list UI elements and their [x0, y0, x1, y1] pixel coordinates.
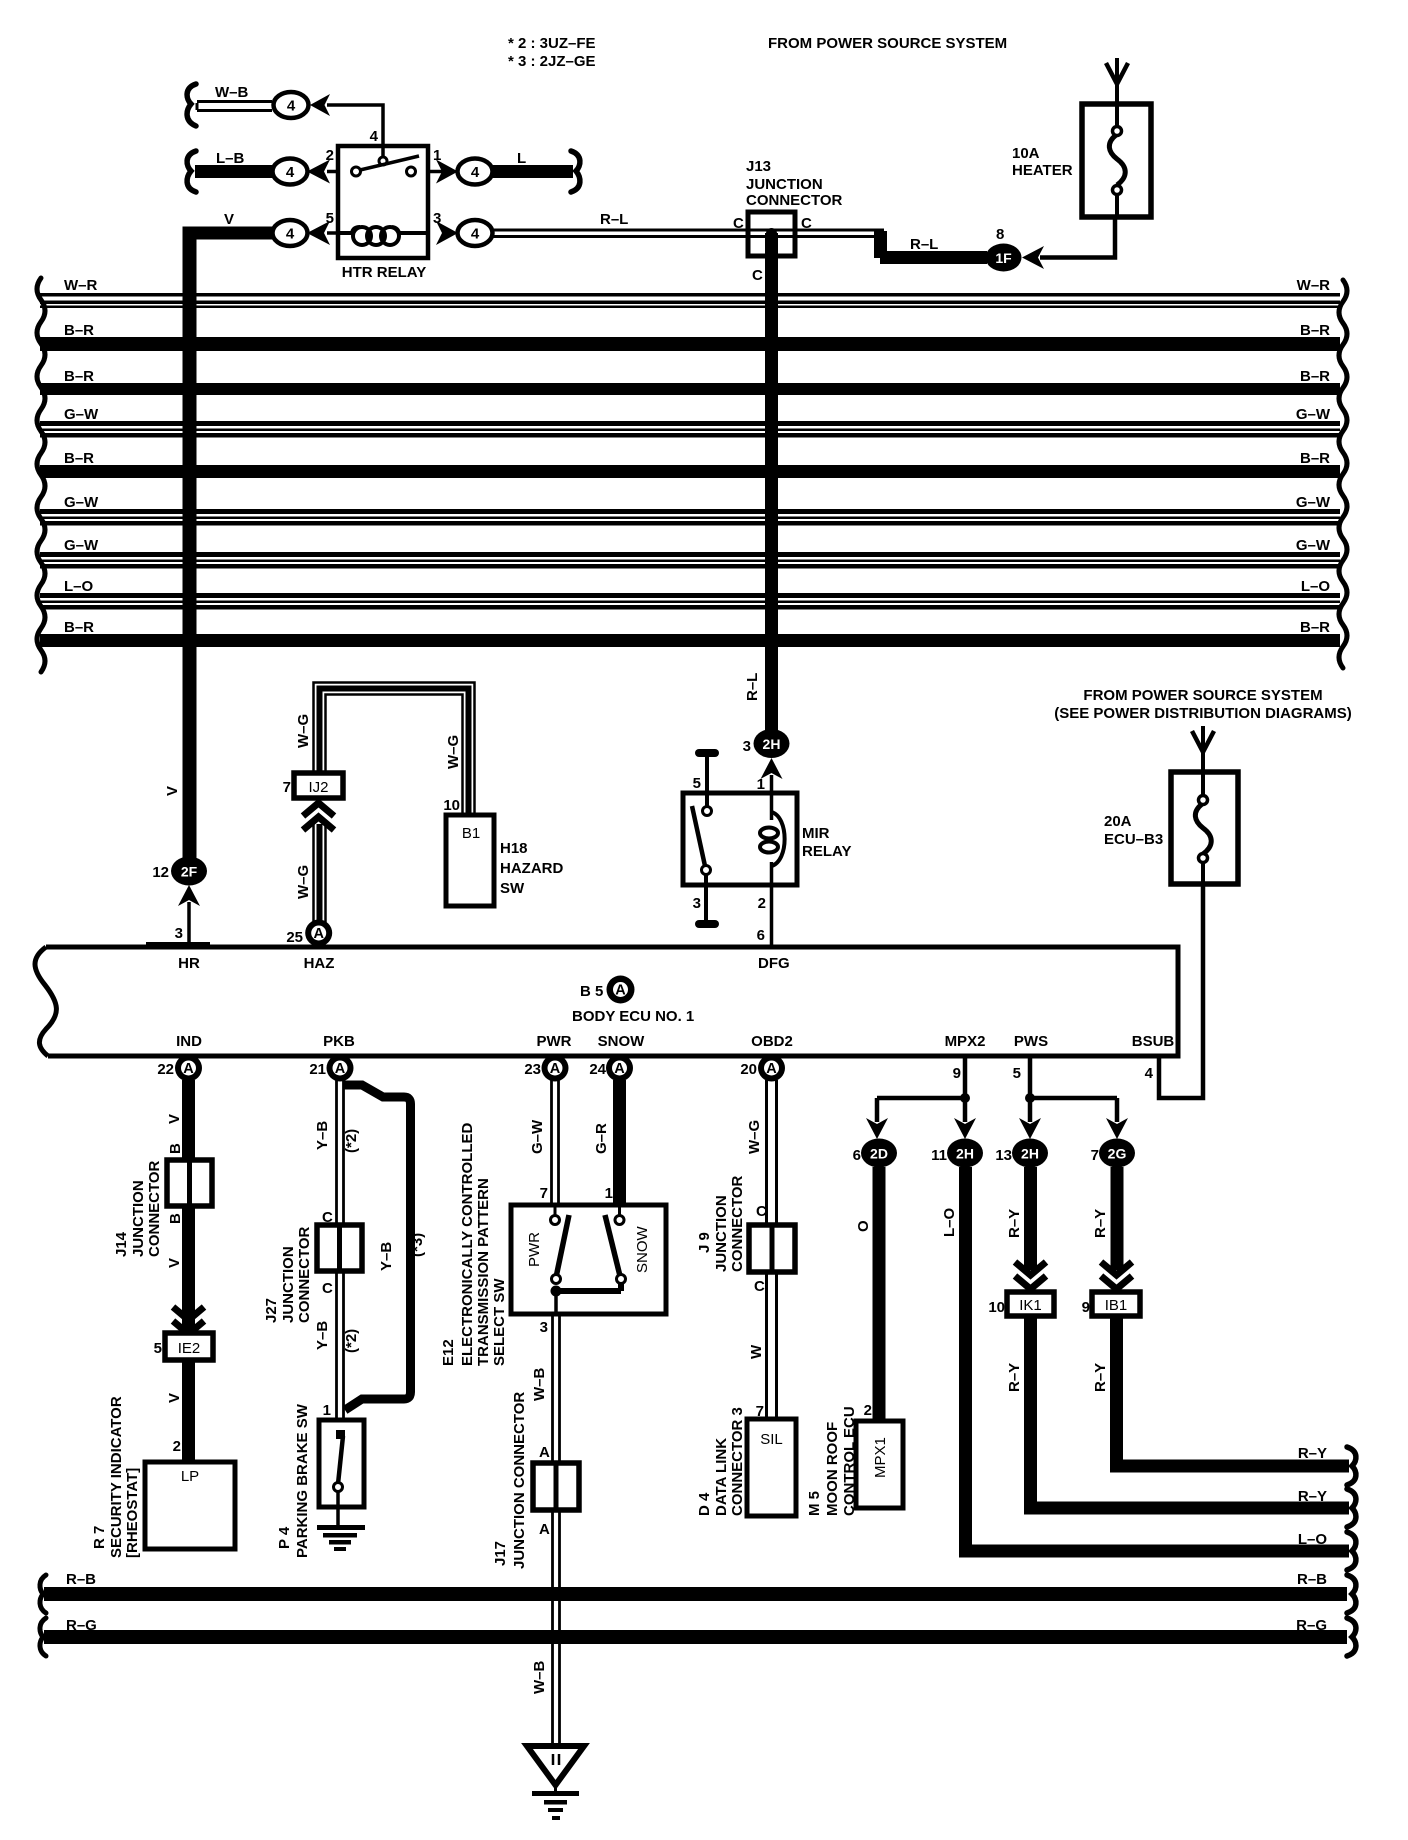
svg-text:C: C — [752, 267, 763, 284]
svg-text:IND: IND — [176, 1033, 202, 1050]
svg-text:A: A — [335, 1061, 346, 1077]
double chevron down (IB1) — [1101, 1262, 1132, 1289]
svg-text:W–R: W–R — [1297, 277, 1331, 294]
MIR switch — [692, 806, 712, 920]
svg-text:A: A — [615, 983, 626, 999]
wire W-B stub — [197, 102, 272, 111]
svg-text:2F: 2F — [181, 864, 198, 880]
HTR relay coil — [338, 227, 428, 245]
MIR pin 3 T-bar bottom — [695, 920, 719, 928]
arrow left into oval 4 (W-B) — [310, 94, 330, 116]
svg-text:SW: SW — [500, 880, 525, 897]
ground triangle II — [527, 1746, 584, 1820]
fuse 20A ECU-B3 — [1171, 772, 1238, 884]
svg-text:W–G: W–G — [295, 865, 312, 899]
connector oval 2H (MIR) — [754, 729, 790, 758]
svg-text:24: 24 — [589, 1061, 606, 1078]
svg-text:W–B: W–B — [531, 1368, 548, 1402]
svg-text:PKB: PKB — [323, 1033, 355, 1050]
svg-text:* 3 : 2JZ–GE: * 3 : 2JZ–GE — [508, 53, 596, 70]
svg-text:10: 10 — [988, 1299, 1005, 1316]
wire OBD2 double line (W-G) — [767, 1080, 777, 1422]
svg-text:W–B: W–B — [215, 84, 249, 101]
wire from heater fuse to 1F — [1040, 217, 1115, 258]
svg-text:O: O — [855, 1220, 872, 1232]
data link connector box SIL — [747, 1419, 796, 1516]
svg-text:2D: 2D — [870, 1146, 888, 1162]
svg-text:SECURITY INDICATOR: SECURITY INDICATOR — [108, 1396, 125, 1558]
connector oval 4 (V) — [273, 220, 308, 246]
note engine codes — [508, 35, 596, 70]
brace R-Y mid right — [1347, 1489, 1356, 1527]
HTR relay switch — [352, 156, 420, 176]
svg-text:JUNCTION: JUNCTION — [746, 176, 823, 193]
wire MIR pin 1 — [770, 775, 774, 820]
svg-text:R–L: R–L — [910, 236, 938, 253]
svg-text:5: 5 — [1013, 1065, 1021, 1082]
svg-text:ECU–B3: ECU–B3 — [1104, 831, 1163, 848]
svg-text:SELECT SW: SELECT SW — [491, 1278, 508, 1366]
svg-text:A: A — [183, 1061, 194, 1077]
brace L-B left — [187, 151, 196, 192]
arrow down into 2H (11) — [954, 1118, 976, 1139]
arrow down into 2H (13) — [1019, 1118, 1041, 1139]
wire W-B double to ground — [553, 1510, 560, 1746]
junction connector J9 — [749, 1225, 795, 1272]
svg-text:12: 12 — [152, 864, 169, 881]
wire 2G to IB1 — [1111, 1167, 1124, 1270]
svg-text:G–R: G–R — [593, 1123, 610, 1154]
svg-text:P 4: P 4 — [276, 1526, 293, 1549]
connector oval 1F — [986, 244, 1022, 272]
svg-text:R–G: R–G — [66, 1617, 97, 1634]
wire pin2 — [327, 170, 338, 174]
arrow left pin5 — [307, 221, 330, 245]
pin A circle (25 HAZ) — [305, 920, 332, 947]
svg-text:1: 1 — [323, 1402, 331, 1419]
svg-text:G–W: G–W — [64, 406, 99, 423]
svg-text:4: 4 — [287, 98, 296, 115]
connector oval 2H (11) — [947, 1139, 983, 1168]
wire pin5 — [327, 231, 338, 235]
svg-text:C: C — [756, 1203, 767, 1220]
double chevron down (IE2) — [173, 1307, 204, 1334]
svg-text:B: B — [167, 1213, 184, 1224]
body ECU box B5 — [35, 947, 1178, 1056]
brace R-B right — [1347, 1575, 1356, 1613]
svg-text:R–Y: R–Y — [1092, 1209, 1109, 1238]
wire IB1 elbow R-Y — [1117, 1316, 1350, 1466]
svg-text:J14: J14 — [113, 1231, 130, 1257]
pin 23 A circle — [524, 1055, 568, 1082]
brace L right — [571, 151, 580, 192]
svg-text:V: V — [164, 786, 181, 796]
svg-text:7: 7 — [540, 1185, 548, 1202]
svg-text:V: V — [166, 1258, 183, 1268]
svg-text:J27: J27 — [263, 1298, 280, 1323]
svg-text:HAZARD: HAZARD — [500, 860, 563, 877]
hazard switch box B1 — [446, 815, 494, 906]
svg-text:2: 2 — [758, 895, 766, 912]
MIR relay coil — [760, 812, 785, 866]
MIR pin 5 T-bar top — [695, 749, 719, 806]
svg-text:PARKING BRAKE SW: PARKING BRAKE SW — [294, 1403, 311, 1558]
wire PWR double line (G-W) — [552, 1080, 559, 1208]
arrow down into 2D — [866, 1118, 888, 1139]
wire V vertical trunk — [183, 227, 197, 872]
svg-text:L: L — [517, 150, 526, 167]
svg-text:MPX2: MPX2 — [945, 1033, 986, 1050]
arrow right pin1 — [436, 160, 458, 184]
svg-text:2H: 2H — [763, 736, 781, 752]
svg-text:A: A — [539, 1521, 550, 1538]
svg-text:HAZ: HAZ — [304, 955, 335, 972]
svg-text:PWR: PWR — [526, 1232, 543, 1267]
svg-text:4: 4 — [471, 164, 480, 181]
svg-text:A: A — [766, 1061, 777, 1077]
bus wire G-W — [40, 537, 1340, 569]
svg-text:2H: 2H — [1021, 1146, 1039, 1162]
label J14 JUNCTION CONNECTOR rotated — [113, 1160, 163, 1257]
svg-text:TRANSMISSION PATTERN: TRANSMISSION PATTERN — [475, 1178, 492, 1366]
svg-text:J17: J17 — [492, 1541, 509, 1566]
svg-text:L–B: L–B — [216, 150, 245, 167]
svg-text:H18: H18 — [500, 840, 528, 857]
svg-text:IJ2: IJ2 — [308, 779, 328, 796]
svg-text:G–W: G–W — [1296, 537, 1331, 554]
wire R-L double line through J13 — [493, 230, 884, 237]
svg-text:R–L: R–L — [600, 211, 628, 228]
svg-text:6: 6 — [853, 1147, 861, 1164]
svg-text:G–W: G–W — [529, 1119, 546, 1154]
svg-text:IK1: IK1 — [1019, 1297, 1042, 1314]
svg-text:C: C — [754, 1278, 765, 1295]
svg-text:7: 7 — [283, 779, 291, 796]
svg-text:R–Y: R–Y — [1298, 1445, 1327, 1462]
junction IK1 — [1007, 1292, 1054, 1316]
svg-text:20A: 20A — [1104, 813, 1132, 830]
svg-text:R–Y: R–Y — [1092, 1363, 1109, 1392]
connector oval 4 (L) — [458, 159, 493, 185]
bus wire W-R — [40, 277, 1340, 308]
svg-text:23: 23 — [524, 1061, 541, 1078]
pin 20 A circle — [740, 1055, 785, 1082]
svg-text:Y–B: Y–B — [314, 1321, 331, 1350]
svg-text:IB1: IB1 — [1105, 1297, 1128, 1314]
wire W-B double from E12 — [553, 1314, 560, 1465]
svg-text:ELECTRONICALLY CONTROLLED: ELECTRONICALLY CONTROLLED — [459, 1122, 476, 1366]
svg-text:25: 25 — [286, 929, 303, 946]
svg-text:W–G: W–G — [295, 714, 312, 748]
wire L-B — [195, 165, 272, 178]
label J 9 JUNCTION CONNECTOR rotated — [696, 1175, 746, 1272]
svg-text:L–O: L–O — [941, 1207, 958, 1237]
svg-text:3: 3 — [540, 1319, 548, 1336]
svg-text:JUNCTION: JUNCTION — [713, 1195, 730, 1272]
junction IJ2 — [294, 773, 343, 798]
svg-text:R–Y: R–Y — [1298, 1488, 1327, 1505]
arrow left pin2 — [307, 160, 330, 184]
svg-text:B–R: B–R — [1300, 619, 1330, 636]
svg-text:FROM POWER SOURCE SYSTEM: FROM POWER SOURCE SYSTEM — [1083, 687, 1322, 704]
svg-text:C: C — [322, 1280, 333, 1297]
svg-text:OBD2: OBD2 — [751, 1033, 793, 1050]
svg-text:W–B: W–B — [531, 1661, 548, 1695]
arrow right pin3 — [436, 221, 458, 245]
svg-text:7: 7 — [1091, 1147, 1099, 1164]
wire MIR pin 2 to DFG — [770, 862, 774, 947]
svg-text:B: B — [167, 1143, 184, 1154]
svg-text:B–R: B–R — [1300, 450, 1330, 467]
bus break left edge — [37, 278, 45, 672]
brace R-G left — [40, 1618, 46, 1656]
svg-text:3: 3 — [743, 738, 751, 755]
svg-text:W: W — [748, 1344, 765, 1359]
double chevron down (IK1) — [1015, 1262, 1046, 1289]
arrow down into heater fuse wire — [1106, 58, 1128, 104]
moon roof control ecu box MPX1 — [856, 1421, 903, 1508]
wire V horizontal — [183, 227, 272, 240]
svg-text:21: 21 — [309, 1061, 326, 1078]
brace R-Y top right — [1347, 1447, 1356, 1485]
bus wire G-W — [40, 494, 1340, 526]
svg-text:CONTROL ECU: CONTROL ECU — [841, 1406, 858, 1516]
svg-text:[RHEOSTAT]: [RHEOSTAT] — [124, 1468, 141, 1558]
fuse 10A HEATER — [1082, 104, 1151, 217]
svg-text:PWS: PWS — [1014, 1033, 1048, 1050]
svg-text:L–O: L–O — [64, 578, 94, 595]
svg-text:Y–B: Y–B — [314, 1121, 331, 1150]
svg-text:V: V — [224, 211, 234, 228]
svg-text:6: 6 — [757, 927, 765, 944]
svg-text:B–R: B–R — [1300, 322, 1330, 339]
wire 2H(11) elbow L-O — [966, 1167, 1350, 1551]
svg-text:2: 2 — [864, 1402, 872, 1419]
svg-text:R–Y: R–Y — [1006, 1363, 1023, 1392]
label D 4 DATA LINK CONNECTOR 3 rotated — [696, 1407, 746, 1516]
svg-text:3: 3 — [693, 895, 701, 912]
connector oval 2H (13) — [1012, 1139, 1048, 1168]
svg-text:R–G: R–G — [1296, 1617, 1327, 1634]
svg-text:10A: 10A — [1012, 145, 1040, 162]
brace W-B left — [187, 84, 196, 126]
junction connector J17 — [533, 1463, 579, 1510]
svg-text:CONNECTOR 3: CONNECTOR 3 — [729, 1407, 746, 1516]
double chevron up (IJ2) — [303, 803, 334, 830]
svg-text:DFG: DFG — [758, 955, 790, 972]
wire 2D to MPX1 thick (O) — [873, 1167, 886, 1423]
label R 7 SECURITY INDICATOR [RHEOSTAT] rotated — [91, 1396, 141, 1558]
label H18 HAZARD SW — [500, 840, 563, 897]
svg-text:L–O: L–O — [1301, 578, 1331, 595]
svg-text:CONNECTOR: CONNECTOR — [729, 1175, 746, 1272]
svg-text:4: 4 — [370, 128, 379, 145]
connector oval 4 (L-B) — [273, 159, 308, 185]
svg-text:A: A — [614, 1061, 625, 1077]
label MIR RELAY — [802, 825, 851, 860]
svg-text:B 5: B 5 — [580, 983, 603, 1000]
bus wire B-R — [40, 619, 1340, 647]
connector oval 2D — [861, 1139, 897, 1168]
svg-text:G–W: G–W — [1296, 406, 1331, 423]
svg-text:11: 11 — [931, 1147, 947, 1164]
label M 5 MOON ROOF CONTROL ECU rotated — [806, 1406, 858, 1516]
brace R-B left — [40, 1575, 46, 1613]
svg-text:4: 4 — [471, 226, 480, 243]
svg-text:(SEE POWER DISTRIBUTION DIAGRA: (SEE POWER DISTRIBUTION DIAGRAMS) — [1054, 705, 1352, 722]
MIR relay box — [683, 793, 797, 885]
bus wire B-R — [40, 322, 1340, 351]
wire IE2 to LP — [182, 1360, 195, 1462]
junction connector J27 — [317, 1225, 362, 1271]
svg-text:B1: B1 — [462, 825, 480, 842]
bus wire G-W — [40, 406, 1340, 438]
wire Y-B (*3) thick loop — [344, 1085, 411, 1410]
wire IK1 elbow R-Y — [1031, 1316, 1350, 1508]
svg-text:Y–B: Y–B — [378, 1242, 395, 1271]
bus wire B-R — [40, 368, 1340, 395]
svg-text:G–W: G–W — [64, 494, 99, 511]
svg-text:B–R: B–R — [1300, 368, 1330, 385]
svg-text:G–W: G–W — [64, 537, 99, 554]
junction IB1 — [1092, 1292, 1140, 1316]
svg-text:E12: E12 — [440, 1339, 457, 1366]
svg-text:R–L: R–L — [744, 673, 761, 701]
svg-text:FROM POWER SOURCE SYSTEM: FROM POWER SOURCE SYSTEM — [768, 35, 1007, 52]
svg-text:DATA LINK: DATA LINK — [713, 1438, 730, 1516]
svg-text:HEATER: HEATER — [1012, 162, 1073, 179]
svg-text:(*3): (*3) — [409, 1233, 426, 1257]
svg-text:5: 5 — [154, 1340, 162, 1357]
wire IND V/B trunk — [182, 1080, 195, 1465]
svg-text:1: 1 — [757, 776, 765, 793]
svg-text:2: 2 — [173, 1438, 181, 1455]
svg-text:R–Y: R–Y — [1006, 1209, 1023, 1238]
wire pin4 of HTR relay — [327, 105, 383, 158]
svg-text:V: V — [166, 1393, 183, 1403]
arrow up into 2H — [761, 758, 783, 779]
svg-text:3: 3 — [175, 925, 183, 942]
svg-text:MIR: MIR — [802, 825, 830, 842]
junction connector J14 — [167, 1160, 212, 1206]
svg-text:B–R: B–R — [64, 450, 94, 467]
svg-text:CONNECTOR: CONNECTOR — [296, 1226, 313, 1323]
pin 22 A circle — [157, 1055, 202, 1082]
pin 24 A circle — [589, 1055, 633, 1082]
svg-text:5: 5 — [693, 775, 701, 792]
bus wire L-O — [40, 578, 1340, 610]
bus wire R-G — [44, 1617, 1347, 1644]
svg-text:CONNECTOR: CONNECTOR — [146, 1160, 163, 1257]
svg-text:R 7: R 7 — [91, 1526, 108, 1549]
svg-text:10: 10 — [443, 797, 460, 814]
svg-text:IE2: IE2 — [178, 1340, 201, 1357]
svg-text:C: C — [733, 215, 744, 232]
svg-text:JUNCTION: JUNCTION — [130, 1180, 147, 1257]
J13 center dot and drop — [765, 228, 778, 743]
connector oval 4 (W-B) — [274, 92, 309, 118]
svg-text:V: V — [166, 1114, 183, 1124]
arrow down into 2G (7) — [1106, 1118, 1128, 1139]
svg-text:A: A — [313, 926, 324, 942]
bus wire R-B — [44, 1571, 1347, 1601]
transmission select switch box E12 — [511, 1205, 666, 1316]
svg-text:A: A — [539, 1444, 550, 1461]
arrow down into ECU-B3 fuse wire — [1192, 726, 1214, 772]
HTR relay box — [338, 146, 428, 258]
junction IE2 — [165, 1333, 213, 1360]
arrow up into 2F — [178, 885, 200, 906]
wire SNOW thick (G-R) — [613, 1080, 626, 1208]
svg-text:2H: 2H — [956, 1146, 974, 1162]
brace R-G right — [1347, 1618, 1356, 1656]
svg-text:BSUB: BSUB — [1132, 1033, 1175, 1050]
connector oval 4 (R-L) — [458, 220, 493, 246]
wire pin1 — [428, 170, 442, 174]
svg-text:8: 8 — [996, 226, 1004, 243]
security indicator box LP — [145, 1462, 235, 1549]
wire MPX2 branch — [877, 1056, 970, 1122]
svg-text:B–R: B–R — [64, 619, 94, 636]
svg-text:D 4: D 4 — [696, 1492, 713, 1516]
label J27 JUNCTION CONNECTOR rotated — [263, 1226, 313, 1323]
svg-text:RELAY: RELAY — [802, 843, 851, 860]
ground (parking brake) — [317, 1525, 365, 1551]
svg-text:R–B: R–B — [66, 1571, 96, 1588]
wire L — [493, 165, 573, 178]
svg-text:13: 13 — [995, 1147, 1012, 1164]
svg-text:SIL: SIL — [760, 1431, 783, 1448]
svg-text:J 9: J 9 — [696, 1232, 713, 1253]
note FROM POWER SOURCE SYSTEM (right) — [1054, 687, 1352, 722]
svg-text:(*2): (*2) — [343, 1329, 360, 1353]
label 20A ECU-B3 — [1104, 813, 1163, 848]
label 10A HEATER — [1012, 145, 1073, 179]
wire W-G lower triple — [314, 822, 326, 925]
label P 4 PARKING BRAKE SW rotated — [276, 1403, 311, 1558]
parking brake switch box — [319, 1420, 364, 1527]
svg-text:R–B: R–B — [1297, 1571, 1327, 1588]
svg-text:4: 4 — [286, 164, 295, 181]
svg-text:9: 9 — [1082, 1299, 1090, 1316]
svg-text:W–G: W–G — [746, 1120, 763, 1154]
connector oval 2G — [1099, 1139, 1135, 1168]
svg-text:(*2): (*2) — [343, 1129, 360, 1153]
pin pad HR — [146, 942, 210, 948]
svg-text:G–W: G–W — [1296, 494, 1331, 511]
wire pin3 HR — [187, 902, 191, 947]
svg-text:4: 4 — [1145, 1065, 1154, 1082]
svg-text:A: A — [550, 1061, 561, 1077]
svg-text:JUNCTION CONNECTOR: JUNCTION CONNECTOR — [511, 1392, 528, 1569]
J13 junction connector J13 — [746, 158, 843, 256]
svg-text:LP: LP — [181, 1468, 199, 1485]
svg-text:SNOW: SNOW — [598, 1033, 646, 1050]
svg-text:M 5: M 5 — [806, 1491, 823, 1516]
wire PKB double line — [337, 1080, 344, 1423]
svg-text:1: 1 — [605, 1185, 613, 1202]
svg-text:JUNCTION: JUNCTION — [280, 1246, 297, 1323]
svg-text:HR: HR — [178, 955, 200, 972]
svg-text:* 2 : 3UZ–FE: * 2 : 3UZ–FE — [508, 35, 596, 52]
wire R-L step down — [874, 231, 987, 264]
svg-text:4: 4 — [286, 226, 295, 243]
W-G hazard loop triple line — [314, 683, 475, 816]
svg-text:22: 22 — [157, 1061, 174, 1078]
svg-text:20: 20 — [740, 1061, 757, 1078]
wire 2H(13) to IK1 — [1024, 1167, 1037, 1270]
pin 21 A circle — [309, 1055, 353, 1082]
